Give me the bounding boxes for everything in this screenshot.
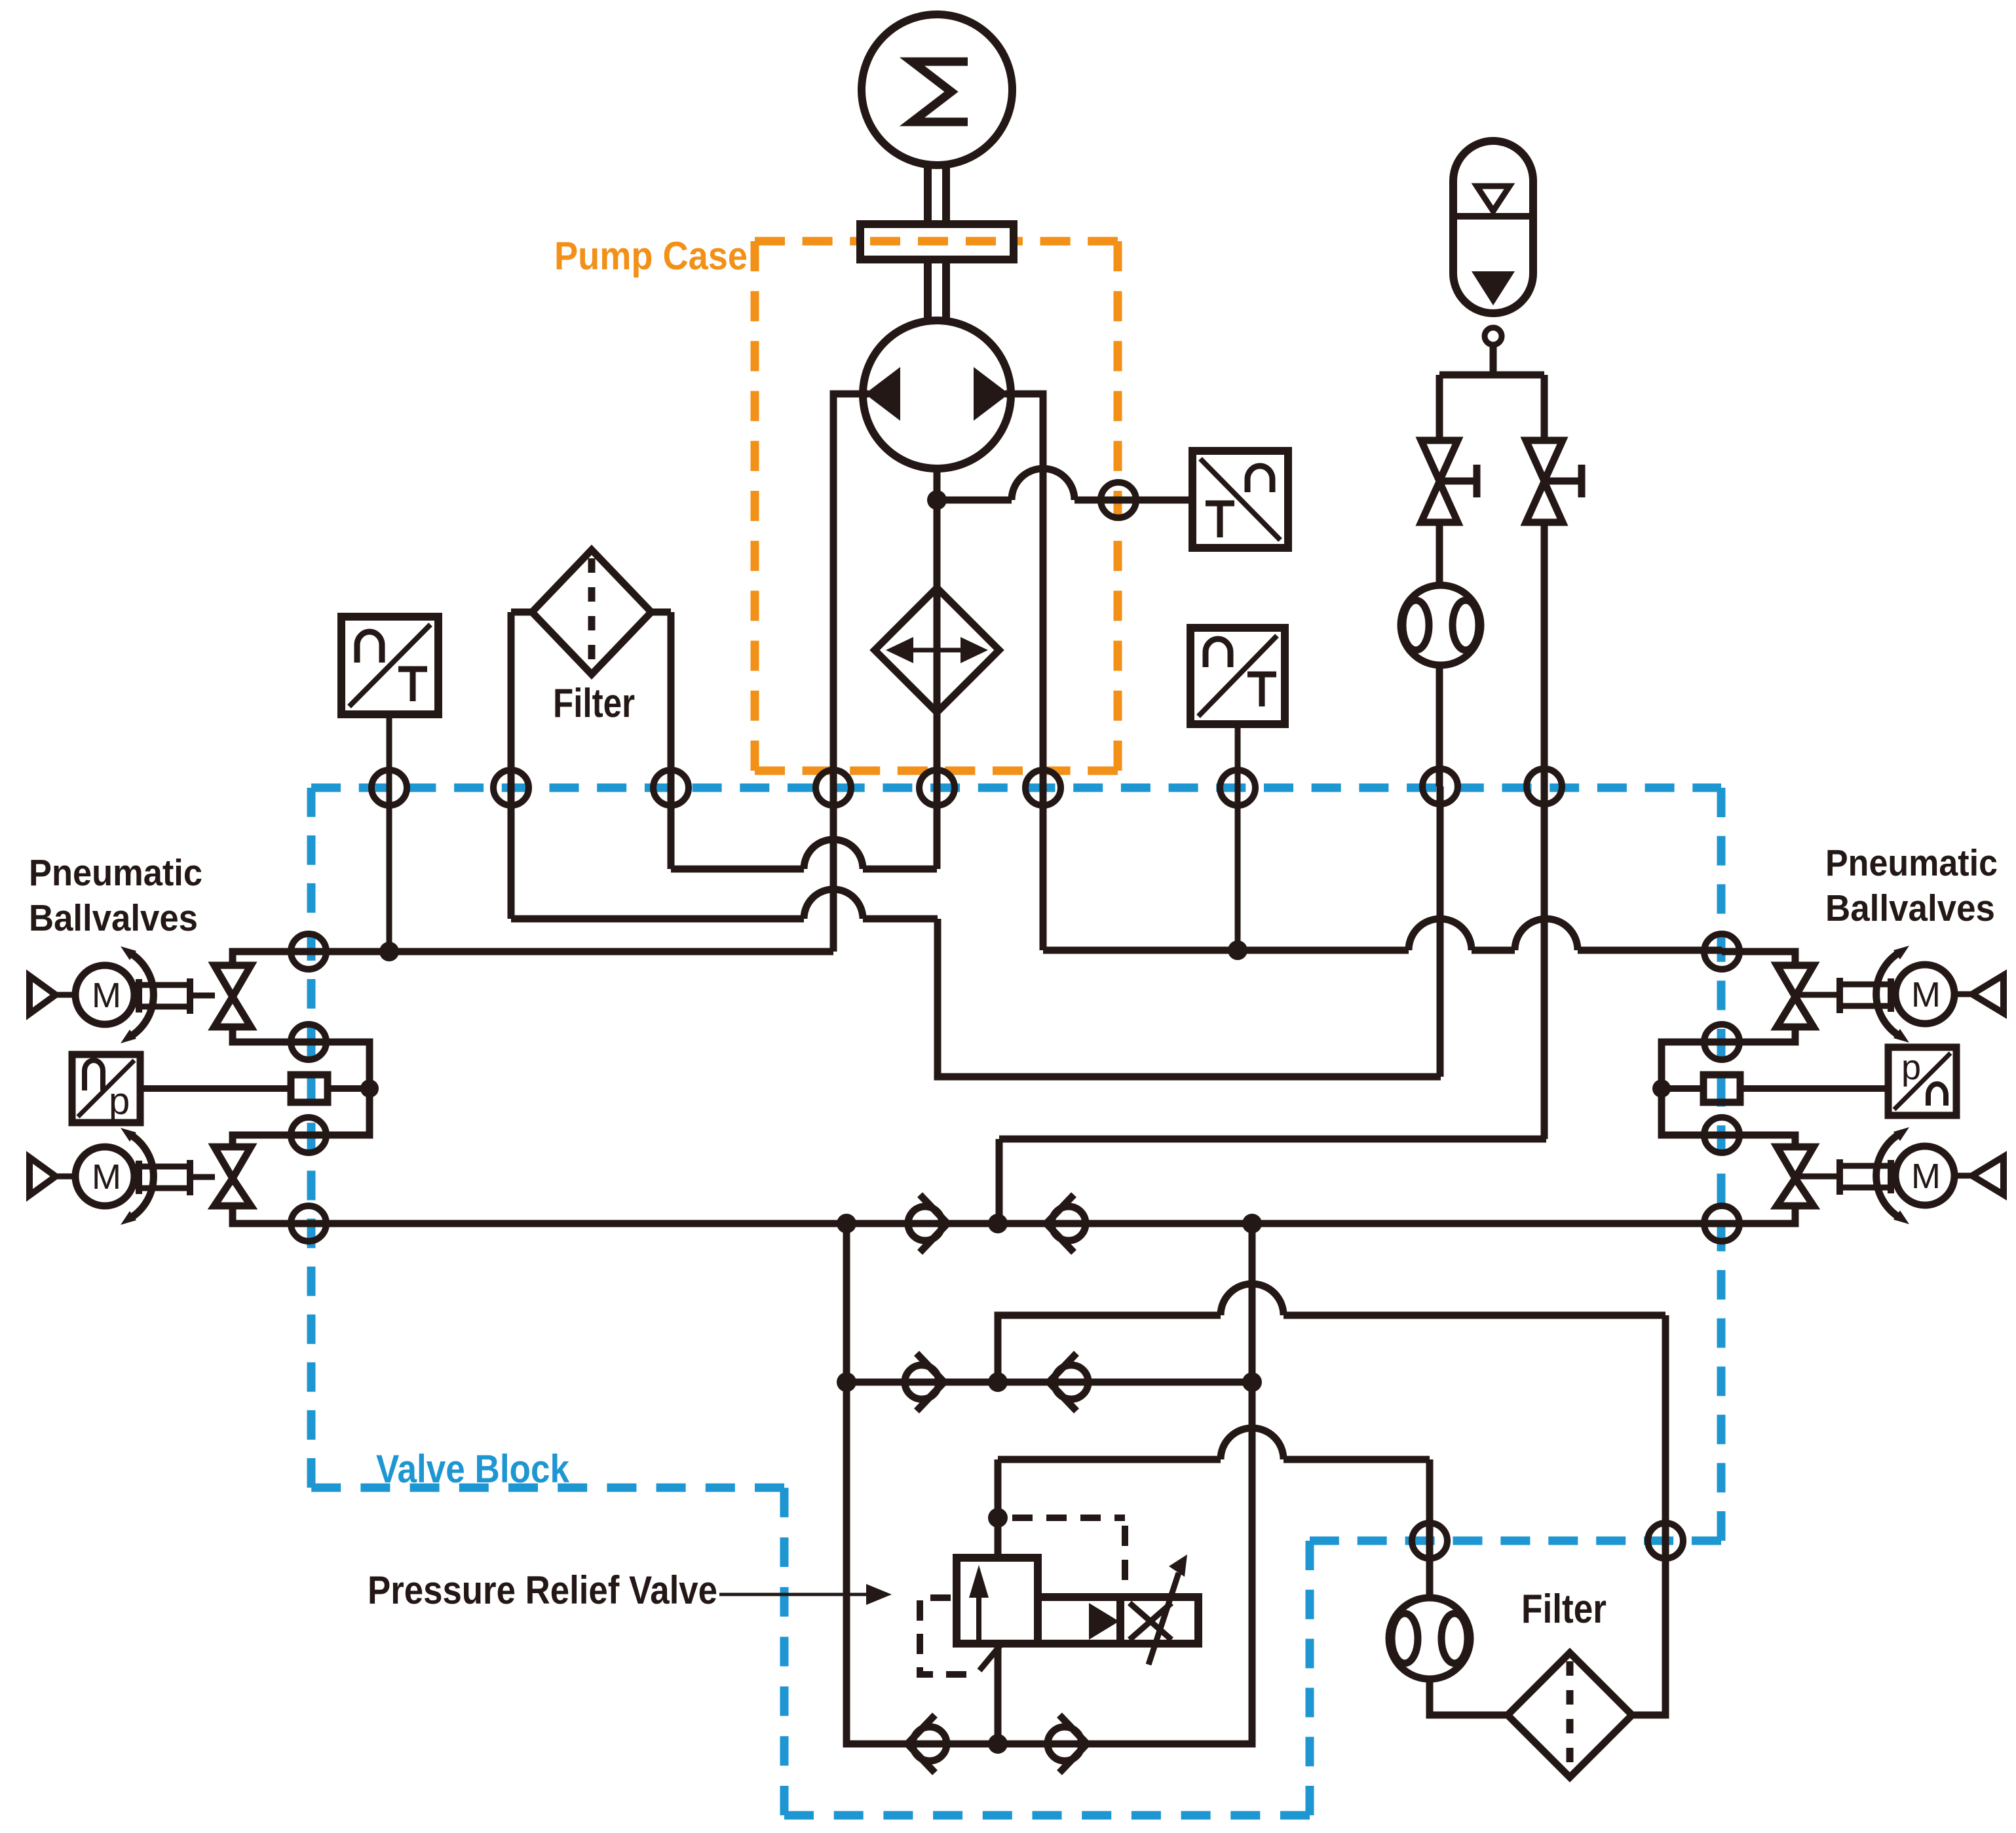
port circle right row1 xyxy=(1704,934,1740,969)
TS1 T glyph (bottom right) xyxy=(398,669,427,701)
relief valve spring X xyxy=(1130,1603,1171,1640)
FM2 right inner ellipse xyxy=(1441,1613,1468,1663)
svg-text:p: p xyxy=(1901,1048,1921,1087)
filter F1 dashed element xyxy=(588,558,596,666)
wire left T-sensor leg down to long line junction xyxy=(387,714,392,952)
node dot row1 center xyxy=(988,1214,1008,1233)
wire left long line (pump left to left ballvalve port) xyxy=(309,948,833,955)
wire right long line (pump right to right ballvalve port) with hops xyxy=(1043,947,1722,954)
wire second jog drop to bottom long line xyxy=(996,1139,1003,1224)
SV2 handle xyxy=(1544,465,1582,497)
node dot row2 center xyxy=(988,1372,1008,1392)
PS2 diagonal xyxy=(1894,1053,1950,1109)
port circle left row3 xyxy=(291,1117,326,1153)
BV4 actuator piston plates xyxy=(1840,1159,1891,1195)
port circle right row3 xyxy=(1704,1117,1740,1153)
wire pump right line down to port and corner right xyxy=(1005,394,1043,950)
FM1 right inner ellipse xyxy=(1453,600,1479,650)
CV2 seat xyxy=(1046,1195,1074,1252)
BV4 motor circle xyxy=(1895,1146,1954,1205)
wire filter column down to filter diamond level xyxy=(1632,1541,1665,1715)
PS2 intersection glyph (bottom right) xyxy=(1928,1084,1946,1106)
check valve CV2 circle xyxy=(1052,1206,1086,1241)
port circle lower T-sensor xyxy=(1220,770,1255,805)
shutoff valve SV2 bowtie xyxy=(1526,440,1563,522)
wire second jog line to right shutoff column xyxy=(999,1136,1546,1143)
wire relief valve riser from y2227 to valve top xyxy=(995,1459,1002,1558)
CV1 seat xyxy=(920,1195,947,1252)
wire left filter right leg xyxy=(668,612,675,869)
node dot row2 right xyxy=(1242,1372,1262,1392)
node dot right sensor tee xyxy=(1652,1079,1671,1098)
accumulator capsule xyxy=(1453,141,1533,313)
cooler diamond xyxy=(875,588,999,712)
BV3 motor circle xyxy=(1895,965,1954,1024)
svg-text:Valve Block: Valve Block xyxy=(376,1447,570,1491)
BV3 stem xyxy=(1798,992,1837,998)
T-sensor TS1 (left) square xyxy=(341,617,438,714)
relief valve middle box arrow (filled) xyxy=(1089,1603,1119,1640)
svg-text:M: M xyxy=(1911,1157,1941,1196)
wire hop arc over pump left line (upper) xyxy=(804,839,863,869)
electric motor M circle xyxy=(862,14,1012,165)
node dot pump drain xyxy=(927,490,947,510)
BV2 valve bowtie xyxy=(214,1147,251,1206)
wire right shutoff valve down to port xyxy=(1541,522,1548,786)
relief valve spring box xyxy=(1120,1597,1198,1644)
wire bottom-right filter column vertical xyxy=(1662,1315,1669,1541)
node dot row2 left xyxy=(837,1372,856,1392)
BV4 rotation arc with arrowheads xyxy=(1876,1136,1897,1216)
TS3 diagonal xyxy=(1198,636,1277,716)
node dot right long line (lower T-sensor junction) xyxy=(1228,940,1247,960)
svg-text:Ballvalves: Ballvalves xyxy=(29,897,198,939)
svg-text:Pneumatic: Pneumatic xyxy=(1825,842,1998,884)
wire right lower ballvalve bottom connection xyxy=(1722,1206,1795,1224)
BV1 vent link xyxy=(56,992,76,998)
node dot row1 left xyxy=(837,1214,856,1233)
BV3 rotation arc with arrowheads xyxy=(1876,954,1897,1034)
BV2 stem xyxy=(193,1174,215,1180)
motor shaft upper double line xyxy=(928,164,946,224)
BV1 rotation arc with arrowheads xyxy=(133,955,153,1035)
BV1 valve bowtie xyxy=(214,965,251,1027)
svg-text:Filter: Filter xyxy=(1521,1587,1607,1632)
ballvalve BV2 vent triangle xyxy=(29,1157,56,1195)
CV6 seat xyxy=(1059,1715,1087,1773)
svg-text:M: M xyxy=(92,1157,121,1197)
CV5 seat xyxy=(907,1715,935,1773)
wire right lower ballvalve top connection xyxy=(1722,1135,1795,1147)
valve block boundary (blue dashed outline) xyxy=(311,788,1721,1815)
accumulator separator line xyxy=(1453,213,1533,220)
node dot left sensor tee xyxy=(360,1079,379,1098)
wire left filter left leg xyxy=(508,612,515,919)
accumulator orifice circle xyxy=(1485,328,1502,345)
port circle bottom filter column xyxy=(1648,1523,1683,1558)
wire hop arc over right shutoff column xyxy=(1515,919,1578,950)
node dot row1 right xyxy=(1242,1214,1262,1233)
CV4 seat xyxy=(1049,1353,1076,1411)
BV1 motor circle xyxy=(75,965,134,1024)
wire flowmeter to port column xyxy=(1436,665,1443,786)
wire relief valve bottom drop to bottom check line xyxy=(995,1644,1002,1744)
relief valve main box xyxy=(957,1558,1038,1644)
cooler left arrowhead xyxy=(886,637,913,663)
wire left ballvalve bottom connection xyxy=(233,1027,309,1042)
port circle left row4 xyxy=(291,1206,326,1241)
wire left shutoff valve to flowmeter xyxy=(1436,522,1443,586)
wire hop arc on case drain line xyxy=(1012,469,1075,500)
wire accumulator right branch down to shutoff valve xyxy=(1541,375,1548,440)
wire right shutoff valve column down from port xyxy=(1541,786,1548,1139)
port circle cooler line xyxy=(919,770,955,805)
check valve CV5 circle xyxy=(913,1727,947,1761)
wire left p-sensor link line xyxy=(140,1085,370,1092)
port circle filter left leg xyxy=(493,770,529,805)
cooler right arrowhead xyxy=(960,637,988,663)
wire left lower ballvalve bottom connection xyxy=(233,1206,309,1224)
cooler arrow line with both heads xyxy=(899,648,975,653)
T-sensor TS2 (pump case) square xyxy=(1192,451,1288,548)
TS2 intersection glyph (top right) xyxy=(1247,466,1272,492)
filter F2 dashed element xyxy=(1567,1661,1574,1769)
wire left shutoff valve column down from port to jog line xyxy=(1437,786,1444,1077)
wire hop arc over pump left line (lower) xyxy=(804,889,863,919)
accumulator fluid triangle (filled) xyxy=(1472,271,1515,305)
wire lower T-sensor leg to long line xyxy=(1235,724,1241,950)
T-sensor TS3 (lower right) square xyxy=(1190,628,1285,724)
pump right triangle (filled) xyxy=(974,367,1009,421)
right junction box on boundary xyxy=(1703,1075,1740,1102)
pump circle xyxy=(863,320,1011,469)
BV3 valve bowtie xyxy=(1777,965,1814,1027)
port circle bottom flowmeter column xyxy=(1412,1523,1447,1558)
wire cooler line to filter right leg, hop over pump left line xyxy=(671,866,937,873)
left junction box on boundary xyxy=(291,1075,328,1102)
node dot bottom row center xyxy=(988,1734,1008,1754)
port circle left row2 xyxy=(291,1024,326,1060)
wire hop arc on y2227 xyxy=(1221,1428,1284,1459)
svg-text:Pump Case: Pump Case xyxy=(554,234,748,278)
wire long bottom line row1 xyxy=(309,1220,1722,1227)
motor letter M rotated (sigma shape) xyxy=(912,62,968,122)
label arrow line to relief valve xyxy=(719,1593,871,1596)
filter F2 diamond xyxy=(1508,1653,1632,1777)
wire filter left vertex connector xyxy=(511,609,532,616)
wire right ballvalve top connection xyxy=(1722,952,1795,965)
port circle pump right xyxy=(1025,770,1061,805)
wire accumulator drop to tee xyxy=(1490,345,1497,375)
port circle pump left xyxy=(816,770,851,805)
wire right ballvalve bottom connection xyxy=(1722,1027,1795,1042)
pump left triangle (filled) xyxy=(865,367,900,421)
accumulator gas triangle (hollow) xyxy=(1477,186,1510,211)
PS1 diagonal xyxy=(78,1060,134,1117)
TS2 diagonal xyxy=(1200,459,1280,540)
BV3 actuator piston plates xyxy=(1840,978,1891,1013)
flowmeter FM2 circle xyxy=(1389,1598,1470,1679)
TS1 diagonal xyxy=(349,625,430,706)
node dot relief pilot tee xyxy=(988,1508,1008,1528)
BV1 stem xyxy=(193,993,215,999)
BV2 actuator piston plates xyxy=(139,1160,190,1195)
BV4 actuator rod xyxy=(1842,1166,1888,1187)
BV1 actuator piston plates xyxy=(139,978,190,1014)
BV3 vent link xyxy=(1954,992,1972,997)
PS1 intersection glyph (top left) xyxy=(85,1060,103,1090)
relief valve adjustment arrow xyxy=(1149,1573,1179,1665)
ballvalve BV1 vent triangle xyxy=(29,976,56,1014)
TS3 T glyph (bottom right) xyxy=(1247,674,1276,706)
TS1 intersection glyph (top left) xyxy=(357,632,382,663)
wire case drain to T-sensor, with hop over pump right line xyxy=(937,497,1192,504)
svg-text:Pressure Relief Valve: Pressure Relief Valve xyxy=(368,1568,717,1612)
check valve CV3 circle xyxy=(905,1365,939,1399)
port circle right shutoff branch xyxy=(1527,769,1562,804)
pump case boundary (orange dashed box) xyxy=(755,241,1118,771)
ballvalve BV4 vent triangle (right) xyxy=(1972,1157,2004,1195)
filter F1 diamond xyxy=(532,550,651,674)
p-sensor PS2 (right) square xyxy=(1888,1047,1956,1115)
FM1 left inner ellipse xyxy=(1403,600,1429,650)
orange dash across coupling xyxy=(870,237,1004,246)
check valve CV4 circle xyxy=(1054,1365,1088,1399)
relief valve lever tick xyxy=(979,1644,1002,1670)
TS3 intersection glyph (top left) xyxy=(1206,639,1230,667)
wire right p-sensor link line xyxy=(1662,1085,1888,1092)
wire relief line y2227 from valve riser to flowmeter column, hop over right column xyxy=(998,1456,1430,1463)
wire flowmeter2 top column to port xyxy=(1426,1459,1434,1598)
SV1 handle xyxy=(1439,465,1477,497)
port circle case drain xyxy=(1101,482,1136,518)
BV2 rotation arc with arrowheads xyxy=(133,1136,153,1216)
CV3 seat xyxy=(917,1353,944,1411)
BV4 valve bowtie xyxy=(1777,1147,1814,1206)
wire flowmeter2 bottom link to filter diamond xyxy=(1430,1680,1508,1715)
wire row2 check line xyxy=(846,1379,1252,1386)
BV4 stem xyxy=(1798,1174,1837,1180)
port circle right row4 xyxy=(1704,1206,1740,1241)
BV2 motor circle xyxy=(75,1147,134,1206)
port circle left shutoff branch xyxy=(1422,769,1458,804)
wire filter left leg jog to center, hop over pump left line xyxy=(511,916,938,923)
p-sensor PS1 (left) square xyxy=(72,1054,140,1123)
wire filter right vertex connector xyxy=(651,609,671,616)
svg-text:Filter: Filter xyxy=(553,681,635,726)
port circle left row1 xyxy=(291,934,326,969)
label arrowhead xyxy=(866,1584,892,1605)
shutoff valve SV1 bowtie xyxy=(1421,440,1458,522)
ballvalve BV3 vent triangle (right) xyxy=(1972,975,2004,1013)
svg-text:M: M xyxy=(92,976,121,1015)
svg-text:p: p xyxy=(109,1080,130,1123)
wire pump center drain through cooler to port xyxy=(934,471,941,869)
check valve CV6 circle xyxy=(1048,1727,1082,1761)
wire row1-row2 left column and bottom loop to right column xyxy=(846,1224,1252,1744)
wire hop arc on y2007 xyxy=(1221,1284,1284,1315)
BV4 vent link xyxy=(1954,1173,1972,1179)
node dot left long line junction xyxy=(379,942,399,961)
relief valve internal arrow xyxy=(976,1592,981,1640)
wire right U between middle ports xyxy=(1662,1042,1722,1135)
wire left U between middle ports xyxy=(309,1042,370,1135)
wire row2 center riser and line to bottom-right filter column, hop over right column xyxy=(998,1315,1665,1382)
FM2 left inner ellipse xyxy=(1392,1613,1418,1663)
BV1 actuator rod xyxy=(142,985,187,1007)
port circle left T-sensor xyxy=(371,770,407,805)
BV3 actuator rod xyxy=(1842,984,1888,1006)
wire left ballvalve top connection xyxy=(233,952,309,965)
relief valve pilot dashes (left bracket) xyxy=(920,1598,979,1674)
wire accumulator tee split xyxy=(1439,372,1544,379)
svg-text:Pneumatic: Pneumatic xyxy=(29,852,202,894)
TS2 T glyph (bottom left) xyxy=(1206,503,1234,537)
relief valve pilot dashes (right) xyxy=(1012,1518,1125,1595)
wire hop arc over left shutoff column xyxy=(1409,919,1472,950)
shaft coupling xyxy=(860,224,1014,260)
port circle filter right leg xyxy=(653,770,689,805)
motor shaft lower double line xyxy=(928,260,946,320)
BV2 vent link xyxy=(56,1174,76,1180)
port circle right row2 xyxy=(1704,1024,1740,1060)
wire center jog down and right to left shutoff valve column xyxy=(938,919,1441,1077)
wire pump left line down to valve block port xyxy=(833,394,869,952)
svg-text:M: M xyxy=(1911,975,1941,1014)
wire accumulator left branch down to shutoff valve xyxy=(1436,375,1443,440)
flowmeter FM1 circle xyxy=(1401,585,1481,665)
wire left lower ballvalve top connection xyxy=(233,1135,309,1147)
relief valve middle box xyxy=(1038,1597,1120,1644)
check valve CV1 circle xyxy=(908,1206,942,1241)
svg-text:Ballvalves: Ballvalves xyxy=(1825,887,1995,929)
BV2 actuator rod xyxy=(142,1167,187,1188)
